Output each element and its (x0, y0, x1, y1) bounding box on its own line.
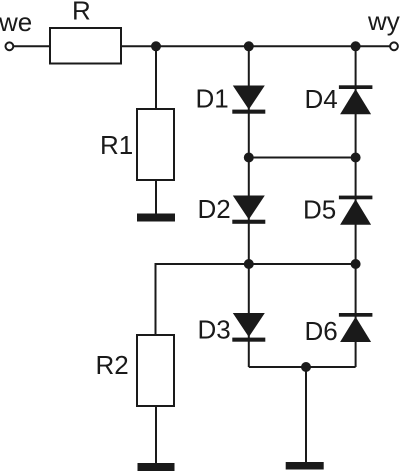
svg-text:D5: D5 (303, 195, 336, 225)
ground (bottom right) (286, 462, 324, 470)
output terminal wy (circle) (390, 42, 398, 50)
node junction top rail / D1 column (244, 41, 254, 51)
wire: D4-D5-D6 column (355, 46, 357, 367)
diode D1 (232, 86, 265, 114)
wire: resistor R to output terminal wy (121, 45, 390, 47)
diode D3 (232, 313, 265, 342)
wire: bottom rail to ground (305, 367, 307, 462)
wire: D1-D2-D3 column (248, 46, 250, 367)
wire: bottom rail (D3 to D6) (249, 366, 356, 368)
wire: middle rail 1 (between D1/D2 and D4/D5) (249, 157, 356, 159)
svg-text:D6: D6 (305, 316, 338, 346)
svg-text:D2: D2 (198, 194, 231, 224)
node junction rail1 / D column left (244, 153, 254, 163)
svg-text:we: we (0, 7, 32, 37)
diode D4 (339, 85, 373, 114)
wire: R2 to ground (155, 406, 157, 463)
node junction rail2 / D column left (244, 259, 254, 269)
resistor R2 (137, 335, 174, 406)
svg-text:R2: R2 (96, 350, 129, 380)
node junction rail2 / D column right (351, 259, 361, 269)
svg-text:D1: D1 (196, 84, 229, 114)
svg-text:R1: R1 (100, 130, 133, 160)
wire: R1 to ground (155, 180, 157, 214)
resistor R1 (137, 109, 174, 180)
wire: input terminal to resistor R (14, 45, 51, 47)
resistor R (50, 28, 121, 64)
node junction top rail / D4 column (351, 41, 361, 51)
ground (below R1) (137, 214, 175, 222)
svg-text:wy: wy (367, 6, 400, 36)
wire: top rail down to R1 (155, 46, 157, 109)
ground (below R2) (138, 463, 175, 471)
diode D6 (339, 313, 373, 342)
node junction top rail / R1 (151, 41, 161, 51)
svg-text:R: R (72, 0, 91, 26)
node junction bottom rail / ground branch (301, 362, 311, 372)
svg-text:D3: D3 (198, 315, 231, 345)
diode D2 (232, 196, 265, 224)
wire: middle rail 2 (to R2 branch) (156, 264, 356, 335)
svg-text:D4: D4 (305, 84, 338, 114)
diode D5 (339, 196, 373, 225)
node junction rail1 / D column right (351, 153, 361, 163)
input terminal we (circle) (5, 42, 13, 50)
